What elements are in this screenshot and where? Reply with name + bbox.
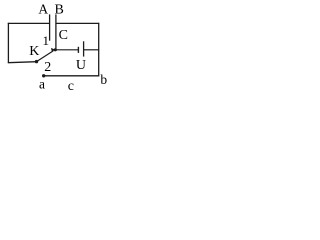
capacitor plate B (right vertical) — [55, 14, 57, 49]
svg-text:b: b — [100, 72, 107, 87]
wire: battery wire right (battery to right edge) — [84, 49, 100, 51]
wire: top edge right section (B plate lead) — [56, 22, 99, 24]
svg-text:1: 1 — [42, 33, 49, 48]
svg-text:c: c — [68, 79, 74, 94]
node: point a dot on bottom wire — [42, 74, 45, 77]
wire: switch feed (left edge corner to pivot) — [8, 62, 37, 63]
switch K arm arrowhead — [51, 48, 55, 52]
wire: left edge — [7, 23, 9, 63]
capacitor plate A (left vertical) — [49, 14, 51, 40]
switch K arm (pivot to contact 1 junction) — [37, 51, 54, 62]
wire: bottom edge (a to b) — [44, 75, 100, 77]
battery U short (negative) plate — [77, 47, 79, 53]
svg-text:C: C — [59, 28, 68, 43]
wire: battery wire left (junction to battery) — [55, 49, 78, 51]
svg-text:A: A — [38, 2, 48, 17]
wire: top edge left section (A plate lead) — [8, 22, 50, 24]
node: junction dot (plate B / battery / contact 1) — [54, 48, 57, 51]
wire: right edge — [98, 23, 100, 77]
svg-text:U: U — [76, 58, 86, 73]
svg-text:B: B — [55, 2, 64, 17]
svg-text:a: a — [39, 77, 45, 92]
svg-text:K: K — [29, 44, 39, 59]
battery U long (positive) plate — [83, 41, 85, 56]
node: switch pivot dot — [35, 60, 38, 63]
svg-text:2: 2 — [44, 60, 51, 75]
